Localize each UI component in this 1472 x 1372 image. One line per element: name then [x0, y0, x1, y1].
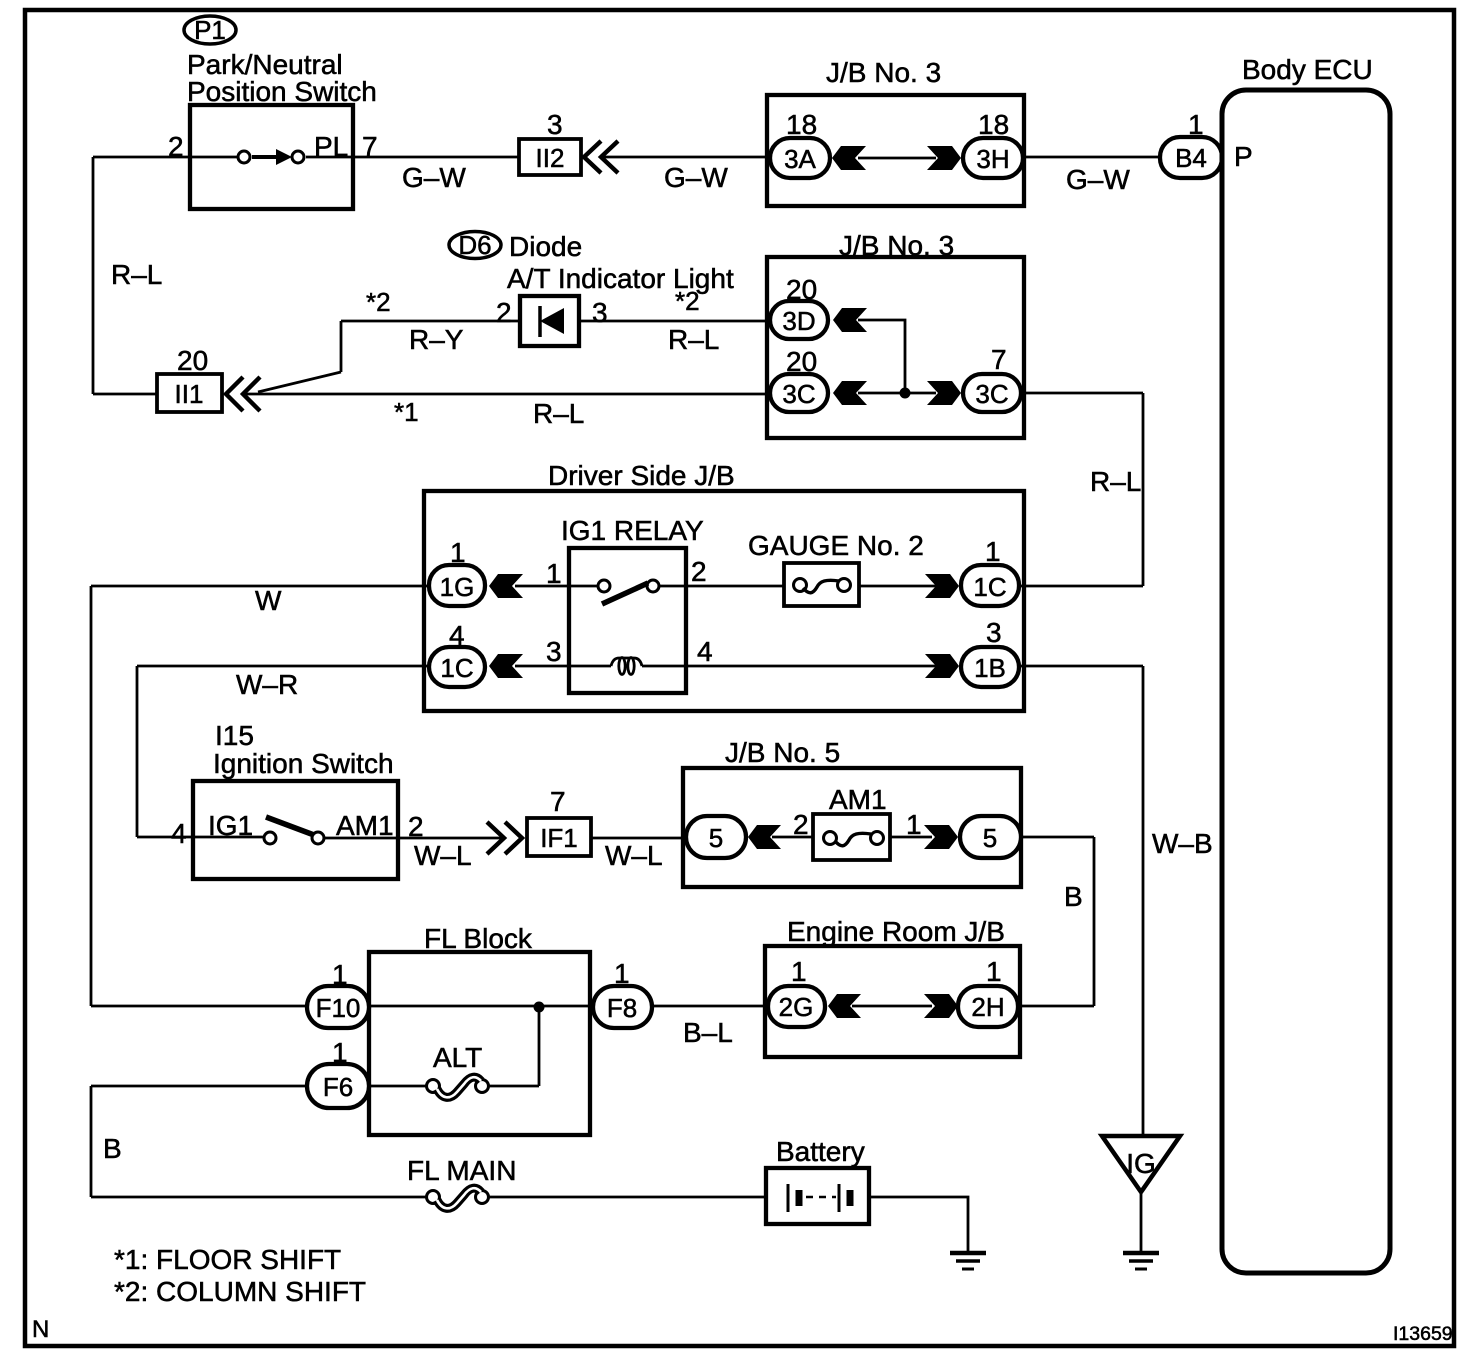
wire ignition pin2 to IF1 arrows [398, 837, 505, 840]
connector 2H [958, 986, 1018, 1027]
connector 1G [429, 565, 485, 606]
svg-text:A/T Indicator Light: A/T Indicator Light [507, 263, 734, 294]
svg-text:II1: II1 [175, 379, 204, 409]
svg-text:FL Block: FL Block [424, 923, 533, 954]
wire battery to ground [869, 1197, 968, 1253]
battery box [766, 1168, 869, 1224]
svg-text:1G: 1G [440, 572, 475, 602]
svg-text:*2: *2 [366, 287, 391, 317]
svg-text:B: B [1064, 881, 1083, 912]
wire FL MAIN to battery [489, 1196, 766, 1199]
junction block J/B No.3 (upper) box [767, 95, 1024, 206]
wire 3A to 3H [858, 157, 936, 160]
svg-text:G–W: G–W [402, 162, 466, 193]
svg-text:F8: F8 [607, 993, 637, 1023]
svg-text:3H: 3H [976, 144, 1009, 174]
wire W from left vertical to 1G [91, 585, 429, 588]
arrow at 1B [925, 654, 959, 678]
svg-text:W: W [255, 585, 282, 616]
wire W-R vertical down to ignition pin4 [136, 666, 139, 837]
svg-text:20: 20 [177, 345, 208, 376]
svg-text:1C: 1C [973, 572, 1006, 602]
svg-text:2: 2 [793, 809, 809, 840]
wire relay pin2 to fuse [686, 585, 784, 588]
wire R-L vertical down to 1C [1142, 393, 1145, 586]
svg-text:3C: 3C [782, 379, 815, 409]
connector F10 [307, 986, 369, 1028]
svg-text:P1: P1 [194, 15, 226, 45]
wire IF1 to J/B No.5 [591, 837, 686, 840]
wire AM1 fuse to arrow [890, 836, 932, 839]
connector 2G [768, 986, 825, 1027]
svg-text:W–L: W–L [414, 840, 472, 871]
switch contacts inside P1 [206, 149, 353, 165]
svg-text:18: 18 [978, 109, 1009, 140]
svg-text:B–L: B–L [683, 1017, 733, 1048]
svg-text:18: 18 [786, 109, 817, 140]
relay contact circles and blade [569, 580, 686, 604]
svg-text:4: 4 [697, 636, 713, 667]
svg-text:2: 2 [691, 556, 707, 587]
svg-text:N: N [32, 1316, 49, 1343]
svg-text:G–W: G–W [1066, 164, 1130, 195]
connector 1C (left) [429, 647, 485, 687]
svg-text:2H: 2H [971, 992, 1004, 1022]
connector F8 [593, 986, 652, 1028]
svg-text:I13659: I13659 [1393, 1323, 1453, 1345]
wire F10 to F8 [369, 1005, 593, 1008]
junction block Engine Room J/B box [765, 946, 1020, 1057]
wire W vertical to F10 [91, 1005, 307, 1008]
svg-text:G–W: G–W [664, 162, 728, 193]
switch I15 box [193, 781, 398, 879]
junction dot in FL Block [534, 1002, 545, 1013]
connector 5 (left) [686, 816, 746, 858]
wire II2 to J/B No.3 [603, 156, 770, 159]
wire P1 pin7 to II2 [353, 156, 519, 159]
svg-text:*1: FLOOR SHIFT: *1: FLOOR SHIFT [114, 1244, 341, 1275]
svg-text:P: P [1234, 141, 1253, 172]
svg-text:D6: D6 [458, 230, 491, 260]
wire 1G to relay pin1 [515, 585, 569, 588]
junction block Driver Side J/B box [424, 491, 1024, 711]
connector 3C (right) [963, 374, 1021, 412]
wire relay pin4 to 1B arrow [686, 665, 936, 668]
connector 1B [961, 647, 1019, 687]
svg-text:5: 5 [983, 823, 997, 853]
arrow at 1C right [925, 574, 959, 598]
wire junction down to ALT branch [538, 1007, 541, 1086]
wire diagonal to II1 arrows [258, 372, 341, 392]
wire B vertical down to 2H [1093, 837, 1096, 1006]
svg-text:R–Y: R–Y [409, 324, 464, 355]
connector B4 [1160, 137, 1222, 178]
fuse block FL Block box [369, 952, 590, 1135]
svg-text:*2: COLUMN SHIFT: *2: COLUMN SHIFT [114, 1276, 366, 1307]
svg-text:1: 1 [985, 536, 1001, 567]
wire W vertical down to F10 [90, 586, 93, 1006]
svg-text:R–L: R–L [111, 259, 162, 290]
arrow at 1G [489, 574, 523, 598]
diode D6 box [520, 296, 579, 346]
switch P1 box [190, 105, 353, 209]
svg-text:J/B No. 5: J/B No. 5 [725, 737, 840, 768]
svg-text:1: 1 [906, 809, 922, 840]
svg-text:Ignition Switch: Ignition Switch [213, 748, 394, 779]
svg-text:F6: F6 [323, 1072, 353, 1102]
svg-text:3A: 3A [784, 144, 816, 174]
wire arrow to AM1 fuse [772, 836, 813, 839]
wire 3H to B4 [1023, 156, 1160, 159]
connector IF1 [527, 818, 591, 856]
wire II1 to 3C [243, 393, 770, 396]
svg-text:GAUGE No. 2: GAUGE No. 2 [748, 530, 924, 561]
wire 1C right to R-L vertical (joins at 586) [1019, 585, 1143, 588]
wire corner down from R-Y [340, 321, 343, 372]
svg-text:F10: F10 [316, 993, 361, 1023]
connector arrows at IF1 [487, 822, 522, 854]
svg-text:ALT: ALT [433, 1042, 482, 1073]
connector 3C (left) [770, 374, 828, 412]
relay IG1 box [569, 548, 686, 693]
ECU Body ECU box [1222, 90, 1390, 1273]
ground (IG) [1123, 1253, 1159, 1269]
connector 3A [770, 138, 830, 178]
arrow at 2H [924, 994, 958, 1018]
connector 3D [770, 301, 828, 339]
svg-text:IG1 RELAY: IG1 RELAY [561, 515, 704, 546]
arrow at 5 left [748, 825, 781, 849]
junction block J/B No.5 box [683, 768, 1021, 887]
svg-text:3: 3 [546, 636, 562, 667]
svg-text:3D: 3D [782, 306, 815, 336]
wire 5 right to B vertical [1021, 836, 1094, 839]
fusible link ALT [369, 1077, 539, 1097]
arrow at 5 right [924, 825, 958, 849]
connector F6 [307, 1064, 369, 1108]
junction block J/B No.3 (lower) box [767, 257, 1024, 438]
wire B to FL MAIN [91, 1196, 427, 1199]
arrow at 1C left [489, 654, 523, 678]
svg-text:3C: 3C [975, 379, 1008, 409]
relay coil [569, 658, 686, 675]
svg-text:*2: *2 [675, 286, 700, 316]
connector arrows at II1 [226, 377, 260, 411]
arrow at 3C left [833, 381, 867, 405]
svg-text:W–B: W–B [1152, 828, 1213, 859]
svg-text:7: 7 [991, 344, 1007, 375]
connector 5 (right) [960, 816, 1021, 858]
svg-text:W–L: W–L [605, 840, 663, 871]
connector 1C (right) [961, 565, 1019, 606]
svg-text:IG: IG [1126, 1148, 1156, 1179]
wire F6 left to B vertical [91, 1085, 307, 1088]
svg-text:W–R: W–R [236, 669, 298, 700]
arrow at 3D [833, 308, 867, 332]
wire 3C to 3C [858, 392, 936, 395]
connector II2 [519, 139, 581, 175]
wire diode pin3 to 3D [579, 320, 770, 323]
wire R-Y to diode pin2 [341, 320, 520, 323]
fusible link FL MAIN [427, 1188, 489, 1208]
svg-text:AM1: AM1 [829, 784, 887, 815]
svg-text:II2: II2 [536, 143, 565, 173]
svg-text:1B: 1B [974, 653, 1006, 683]
svg-text:Engine Room J/B: Engine Room J/B [787, 916, 1005, 947]
arrow at 2G [828, 994, 861, 1018]
svg-text:R–L: R–L [668, 324, 719, 355]
wire 1C to relay pin3 [515, 665, 569, 668]
svg-text:4: 4 [171, 818, 187, 849]
svg-text:1: 1 [791, 956, 807, 987]
svg-text:J/B No. 3: J/B No. 3 [826, 57, 941, 88]
wire 2G to 2H [852, 1005, 932, 1008]
svg-text:Position Switch: Position Switch [187, 76, 377, 107]
svg-text:2: 2 [496, 297, 512, 328]
svg-text:1C: 1C [440, 653, 473, 683]
svg-text:5: 5 [709, 823, 723, 853]
svg-text:1: 1 [986, 956, 1002, 987]
wire W-R from vertical to 1C [137, 665, 429, 668]
wire W-R vertical to ignition pin4 [137, 836, 193, 839]
svg-text:7: 7 [550, 786, 566, 817]
svg-text:I15: I15 [215, 720, 254, 751]
arrow at 3H [927, 146, 961, 170]
battery symbol [788, 1184, 850, 1212]
switch P1 label Park/Neutral Position Switch [187, 49, 377, 107]
svg-text:Body ECU: Body ECU [1242, 54, 1373, 85]
wire 3D arrow to junction [858, 320, 905, 393]
svg-text:3: 3 [592, 297, 608, 328]
svg-text:Battery: Battery [776, 1136, 865, 1167]
fuse AM1 [813, 814, 890, 860]
svg-text:B4: B4 [1175, 143, 1207, 173]
svg-text:AM1: AM1 [336, 810, 394, 841]
wire left vertical to II1 [93, 393, 157, 396]
svg-text:3: 3 [986, 617, 1002, 648]
svg-text:IF1: IF1 [540, 823, 578, 853]
wire B vertical F6 down to FL MAIN [90, 1086, 93, 1197]
svg-text:1: 1 [546, 558, 562, 589]
connector arrows at II2 [584, 141, 618, 173]
svg-text:R–L: R–L [1090, 466, 1141, 497]
wire F8 to 2G [652, 1005, 768, 1008]
wire R-L vertical from P1 pin2 down to II1 [92, 157, 95, 394]
svg-text:B: B [103, 1133, 122, 1164]
wire fuse to 1C arrow [859, 585, 936, 588]
fuse GAUGE No. 2 [784, 563, 859, 606]
connector 3H [963, 138, 1023, 178]
connector code D6 [449, 230, 501, 260]
wire IG triangle to ground [1140, 1192, 1143, 1253]
svg-text:Driver Side J/B: Driver Side J/B [548, 460, 735, 491]
ground node IG triangle [1102, 1136, 1180, 1192]
wire 3C right to R-L vertical [1021, 392, 1143, 395]
arrow at 3C right [927, 381, 961, 405]
svg-text:Diode: Diode [509, 231, 582, 262]
ground (battery) [950, 1253, 986, 1269]
ignition switch contacts [193, 817, 398, 844]
wire W-B vertical down to IG triangle [1142, 666, 1145, 1136]
arrow at 3A [832, 146, 866, 170]
connector code P1 [184, 15, 236, 45]
connector II1 [157, 374, 222, 412]
junction dot [900, 388, 911, 399]
svg-text:FL MAIN: FL MAIN [407, 1155, 516, 1186]
wire 2H to B vertical [1018, 1005, 1094, 1008]
svg-text:R–L: R–L [533, 398, 584, 429]
diode D6 label [507, 231, 734, 294]
svg-text:3: 3 [547, 109, 563, 140]
svg-text:*1: *1 [394, 397, 419, 427]
wire P1 pin2 to left vertical [93, 156, 206, 159]
wire 1B to W-B vertical [1019, 665, 1143, 668]
diode D6 symbol [540, 306, 564, 337]
svg-text:2G: 2G [779, 992, 814, 1022]
